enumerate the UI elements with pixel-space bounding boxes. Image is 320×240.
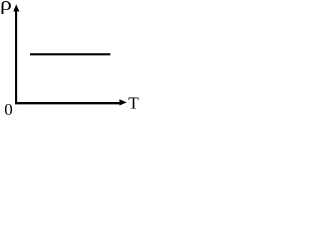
svg-text:ρ: ρ [0,0,12,14]
svg-text:0: 0 [4,100,13,119]
svg-text:T: T [128,93,139,112]
